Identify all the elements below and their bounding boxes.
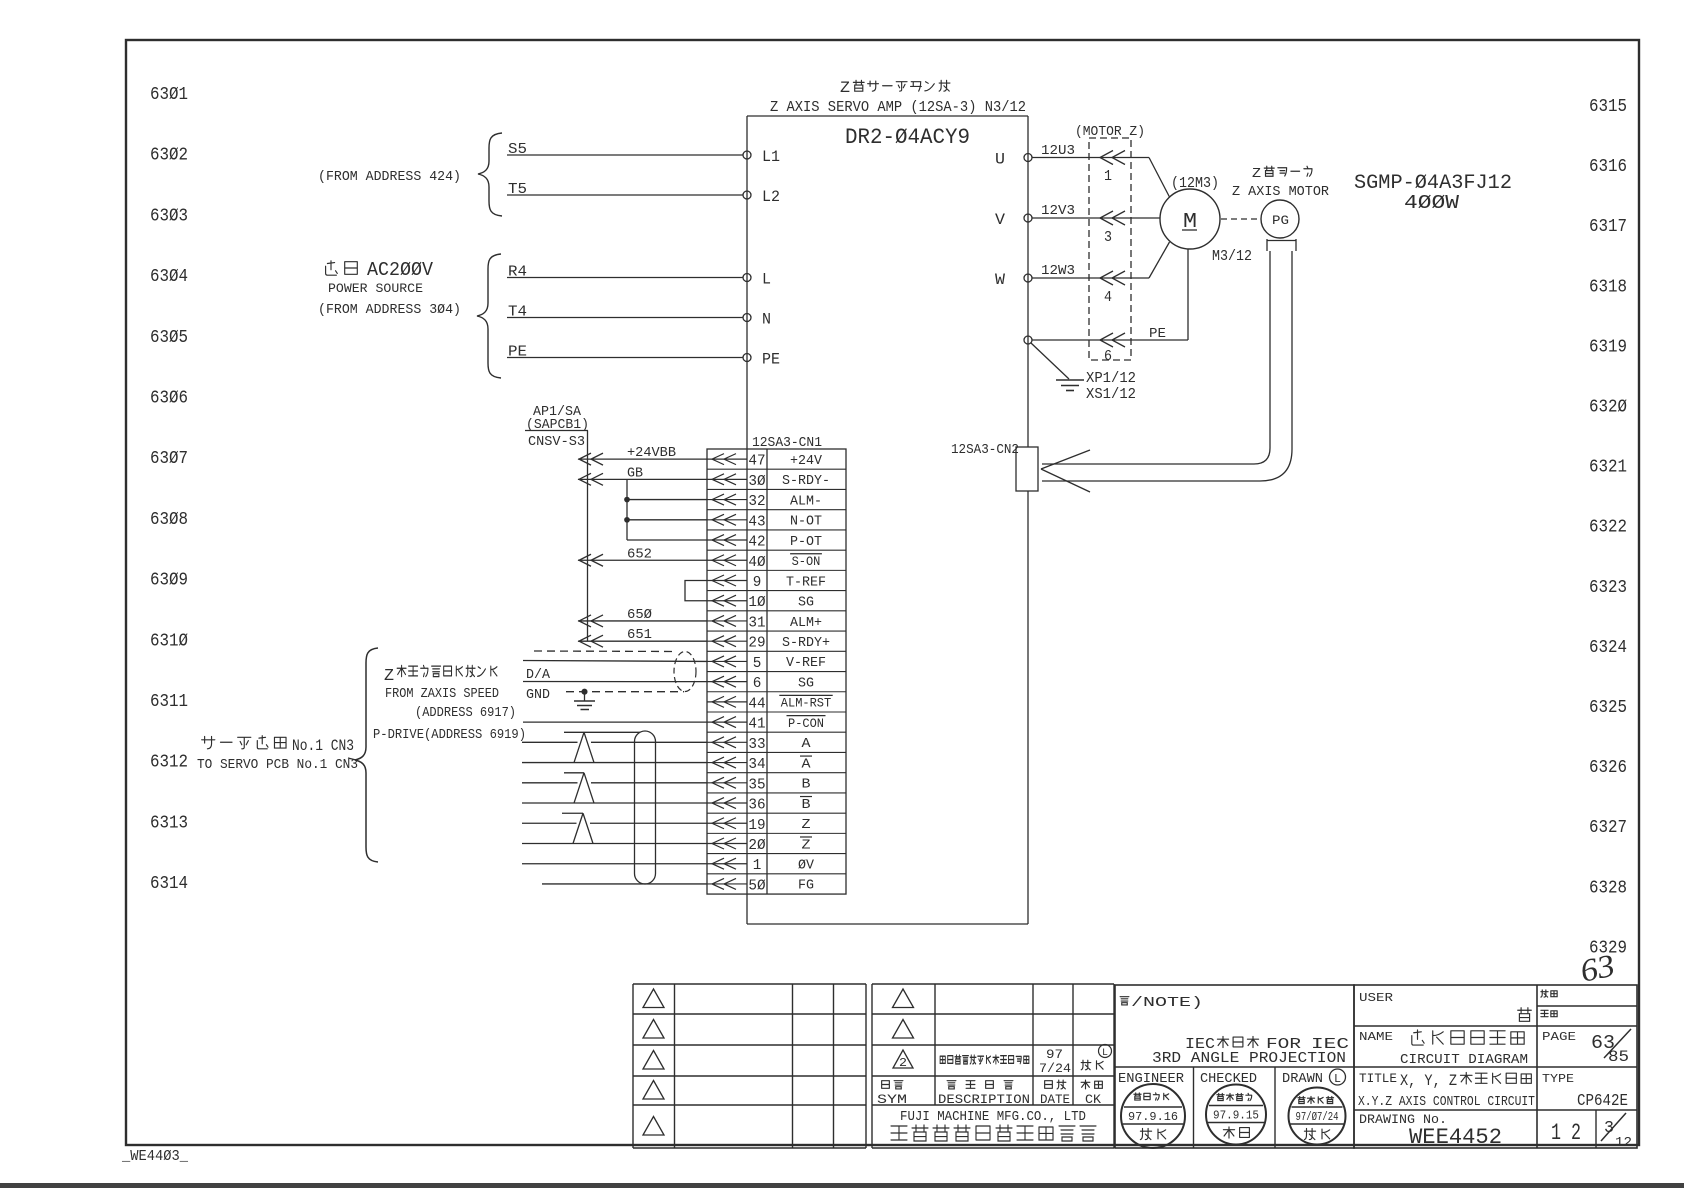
svg-text:X.Y.Z AXIS CONTROL CIRCUIT: X.Y.Z AXIS CONTROL CIRCUIT	[1358, 1095, 1535, 1110]
svg-text:6327: 6327	[1589, 818, 1627, 838]
wire +24VBB pin47	[578, 458, 707, 460]
svg-text:29: 29	[748, 635, 765, 652]
CN1 pin 47 +24V row	[707, 458, 747, 460]
svg-text:CP642E: CP642E	[1577, 1092, 1628, 1111]
svg-text:U: U	[995, 151, 1005, 169]
CN1 pin 41 P-CON row	[707, 721, 747, 723]
svg-text:6319: 6319	[1589, 337, 1627, 357]
svg-text:12W3: 12W3	[1041, 263, 1075, 279]
svg-text:(FROM ADDRESS 3Ø4): (FROM ADDRESS 3Ø4)	[318, 302, 461, 318]
svg-text:PAGE: PAGE	[1542, 1030, 1576, 1044]
svg-text:CNSV-S3: CNSV-S3	[528, 434, 585, 450]
twisted pair symbol pins 19/2Ø	[562, 812, 583, 814]
svg-text:DR2-Ø4ACY9: DR2-Ø4ACY9	[845, 125, 970, 150]
svg-text:WEE4452: WEE4452	[1409, 1125, 1502, 1150]
wire T4	[507, 317, 743, 319]
svg-text:6: 6	[1104, 348, 1112, 365]
svg-text:A: A	[802, 736, 812, 752]
CN1 pin 31 ALM+ row	[707, 620, 747, 622]
stamp circle checked yamamoto	[1206, 1085, 1266, 1145]
svg-text:7/24: 7/24	[1039, 1061, 1071, 1076]
svg-text:632Ø: 632Ø	[1589, 398, 1627, 418]
connector 12SA3-CN2	[1016, 447, 1038, 491]
svg-text:12U3: 12U3	[1041, 143, 1075, 159]
svg-text:2Ø: 2Ø	[748, 837, 765, 854]
svg-text:631Ø: 631Ø	[150, 631, 188, 651]
svg-text:L1: L1	[762, 148, 780, 166]
svg-text:L: L	[762, 271, 771, 289]
CN1 table frame	[707, 449, 846, 894]
CN1 pin 5 V-REF row	[707, 660, 747, 662]
svg-text:+24V: +24V	[790, 453, 823, 469]
svg-text:63Ø2: 63Ø2	[150, 146, 188, 166]
bunban box label	[1541, 990, 1548, 997]
wire S5	[507, 154, 743, 156]
svg-text:4ØØW: 4ØØW	[1404, 192, 1460, 214]
CN1 pin 6 SG row	[707, 681, 747, 683]
CN1 pin 29 S-RDY+ row	[707, 640, 747, 642]
note label	[1120, 997, 1129, 1005]
svg-text:X, Y, Z: X, Y, Z	[1400, 1072, 1457, 1090]
CN1 pin 2Ø Z row	[707, 842, 747, 844]
GB branch bus vertical	[626, 479, 628, 540]
dashed link M to PG	[1221, 218, 1260, 220]
svg-text:12SA3-CN2: 12SA3-CN2	[951, 442, 1019, 458]
terminal L2	[743, 191, 751, 199]
svg-text:PE: PE	[762, 351, 780, 369]
stamp circle engineer adachi	[1121, 1084, 1185, 1148]
wire R4	[507, 277, 743, 279]
svg-text:6318: 6318	[1589, 277, 1627, 297]
junction dot pin32	[625, 497, 629, 501]
jumper T-REF to SG pins 9-10	[685, 580, 707, 600]
svg-text:47: 47	[748, 453, 765, 470]
label servo pcb No.1 CN3 kanji	[202, 736, 215, 748]
svg-text:L2: L2	[762, 188, 780, 206]
svg-text:P-CON: P-CON	[788, 717, 824, 731]
svg-text:6315: 6315	[1589, 97, 1627, 117]
svg-text:63Ø5: 63Ø5	[150, 328, 188, 348]
svg-text:41: 41	[748, 716, 765, 733]
svg-text:Z AXIS MOTOR: Z AXIS MOTOR	[1232, 184, 1330, 200]
CN1 pin 33 A row	[707, 741, 747, 743]
svg-text:S-RDY-: S-RDY-	[782, 473, 830, 489]
svg-text:63Ø3: 63Ø3	[150, 206, 188, 226]
dono kanji	[1518, 1008, 1532, 1022]
svg-text:31: 31	[748, 614, 765, 631]
svg-text:V-REF: V-REF	[786, 655, 826, 671]
revision triangle L2	[643, 1020, 664, 1039]
svg-text:36: 36	[748, 797, 765, 814]
svg-text:1 2: 1 2	[1551, 1120, 1581, 1146]
wire P-DRIVE pin41	[523, 721, 707, 723]
circled L small	[1099, 1045, 1112, 1058]
title block NOTE box	[1115, 985, 1354, 1148]
revision triangle R2	[893, 1020, 914, 1039]
wire GB pin30	[578, 478, 707, 480]
CN1 pin 4Ø S-ON row	[707, 559, 747, 561]
svg-text:1Ø: 1Ø	[748, 594, 765, 611]
revision triangle L3	[643, 1051, 664, 1070]
svg-text:(FROM ADDRESS 424): (FROM ADDRESS 424)	[318, 169, 461, 185]
svg-text:4: 4	[1104, 289, 1112, 306]
svg-text:AC2ØØV: AC2ØØV	[367, 259, 434, 281]
scanner edge line bottom	[0, 1183, 1684, 1188]
svg-text:1: 1	[753, 857, 762, 874]
terminal PE	[743, 354, 751, 362]
svg-text:97/Ø7/24: 97/Ø7/24	[1296, 1110, 1339, 1124]
svg-text:6328: 6328	[1589, 878, 1627, 898]
header CK cell	[1081, 1080, 1090, 1089]
svg-text:DRAWN: DRAWN	[1282, 1071, 1323, 1087]
svg-text:63Ø6: 63Ø6	[150, 389, 188, 409]
svg-text:No.1 CN3: No.1 CN3	[292, 737, 354, 755]
CN1 pin 19 Z row	[707, 822, 747, 824]
svg-text:ALM-: ALM-	[790, 493, 822, 509]
terminal L	[743, 274, 751, 282]
svg-text:6317: 6317	[1589, 217, 1627, 237]
svg-text:6326: 6326	[1589, 758, 1627, 778]
svg-text:S5: S5	[508, 141, 527, 158]
svg-text:1: 1	[1104, 168, 1112, 185]
svg-text:TITLE: TITLE	[1359, 1071, 1397, 1086]
stamp circle drawn esaka	[1289, 1088, 1346, 1145]
svg-text:CK: CK	[1085, 1092, 1101, 1107]
svg-text:SYM: SYM	[877, 1092, 907, 1107]
svg-text:65Ø: 65Ø	[627, 608, 652, 623]
svg-text:63Ø1: 63Ø1	[150, 85, 188, 105]
svg-text:XP1/12: XP1/12	[1086, 370, 1136, 387]
wire U 12U3 pin1	[1032, 157, 1149, 159]
wire V 12V3 pin3	[1032, 217, 1160, 219]
CN1 pin 34 A row	[707, 762, 747, 764]
wire pin 33	[522, 741, 578, 743]
wire 650 pin31	[578, 620, 707, 622]
label power source AC200V	[326, 261, 338, 275]
svg-text:43: 43	[748, 513, 765, 530]
svg-text:A: A	[802, 756, 812, 772]
revision triangle L5	[643, 1117, 664, 1136]
svg-text:6312: 6312	[150, 753, 188, 773]
dashed connector box MOTOR Z	[1089, 138, 1131, 360]
servo amp 12SA-3 box outline	[747, 115, 1028, 117]
twisted pair symbol pins 33/34	[564, 731, 584, 733]
svg-text:63Ø8: 63Ø8	[150, 510, 188, 530]
svg-text:97.9.15: 97.9.15	[1213, 1109, 1259, 1123]
revision 2 CK esaka	[1081, 1060, 1091, 1070]
CN1 pin 42 P-OT row	[707, 539, 747, 541]
CN1 pin 1 ØV row	[707, 863, 747, 865]
shield ellipse pair 5/6	[674, 652, 696, 692]
terminal U	[1024, 154, 1032, 162]
svg-text:W: W	[995, 271, 1005, 289]
terminal L1	[743, 151, 751, 159]
svg-text:N: N	[762, 311, 771, 329]
svg-text:(12M3): (12M3)	[1171, 175, 1219, 192]
wire pin 36	[522, 802, 707, 804]
svg-text:651: 651	[627, 628, 652, 643]
shield dashed top V-REF	[534, 650, 676, 653]
wire pin 34	[522, 762, 707, 764]
revision triangle L1	[643, 989, 664, 1008]
svg-text:ALM-RST: ALM-RST	[781, 697, 832, 711]
svg-text:Z: Z	[1252, 166, 1261, 182]
svg-text:44: 44	[748, 695, 765, 712]
svg-text:FROM ZAXIS SPEED: FROM ZAXIS SPEED	[385, 686, 499, 702]
twisted pair A extension to shield	[584, 731, 640, 733]
svg-text:6321: 6321	[1589, 458, 1627, 478]
svg-text:6: 6	[753, 675, 762, 692]
wire 652 pin40	[578, 559, 707, 561]
header SYM cell	[882, 1081, 890, 1089]
svg-text:4Ø: 4Ø	[748, 554, 765, 571]
svg-text:P-DRIVE(ADDRESS 6919): P-DRIVE(ADDRESS 6919)	[373, 727, 526, 743]
svg-text:6322: 6322	[1589, 518, 1627, 538]
CN1 pin 36 B row	[707, 802, 747, 804]
brace servo pcb no1 cn3	[355, 648, 378, 862]
svg-text:ØV: ØV	[798, 858, 815, 874]
svg-text:CIRCUIT DIAGRAM: CIRCUIT DIAGRAM	[1400, 1052, 1528, 1068]
svg-text:34: 34	[748, 756, 765, 773]
PG cable down to CN2	[1042, 251, 1270, 464]
CN1 pin 35 B row	[707, 782, 747, 784]
motor M circle 12M3	[1160, 189, 1220, 249]
USER box	[1354, 985, 1637, 1148]
ground symbol GND	[584, 692, 586, 701]
circled L drawn	[1330, 1069, 1346, 1085]
svg-text:6323: 6323	[1589, 578, 1627, 598]
svg-text:Z: Z	[802, 837, 811, 853]
wire PE pin6	[1032, 339, 1188, 341]
CN1 pin 9 T-REF row	[707, 579, 747, 581]
svg-text:32: 32	[748, 493, 765, 510]
svg-text:97.9.16: 97.9.16	[1128, 1110, 1178, 1124]
CN1 pin 3Ø S-RDY- row	[707, 478, 747, 480]
CN1 pin 1Ø SG row	[707, 600, 747, 602]
terminal PE right	[1024, 336, 1032, 344]
svg-text:GND: GND	[526, 687, 550, 703]
svg-text:N-OT: N-OT	[790, 514, 822, 530]
revision triangle L4	[643, 1081, 664, 1100]
svg-text:PE: PE	[1149, 326, 1166, 342]
svg-text:M3/12: M3/12	[1212, 248, 1252, 265]
svg-text:L: L	[1334, 1072, 1341, 1086]
svg-text:SG: SG	[798, 675, 814, 691]
svg-text:NAME: NAME	[1359, 1030, 1393, 1044]
shield dashed GND	[566, 691, 684, 693]
wire pin 2Ø	[522, 842, 707, 844]
CN1 pin 32 ALM- row	[707, 499, 747, 501]
svg-text:T-REF: T-REF	[786, 574, 826, 590]
svg-text:12: 12	[1615, 1135, 1632, 1151]
svg-text:ALM+: ALM+	[790, 615, 822, 631]
svg-text:6313: 6313	[150, 813, 188, 833]
brace from address 424	[478, 133, 502, 216]
wire pin32	[627, 499, 707, 501]
svg-text:6311: 6311	[150, 692, 188, 712]
svg-text:Z AXIS SERVO AMP (12SA-3) N3/: Z AXIS SERVO AMP (12SA-3) N3/12	[770, 99, 1026, 116]
svg-text:PE: PE	[508, 344, 527, 361]
svg-text:D/A: D/A	[526, 667, 551, 683]
svg-text:42: 42	[748, 534, 765, 551]
svg-text:T5: T5	[508, 181, 527, 198]
brace from address 304	[477, 254, 501, 378]
wire 651 pin29	[578, 640, 707, 642]
svg-text:63Ø4: 63Ø4	[150, 267, 188, 287]
wire pin43	[627, 519, 707, 521]
header DATE cell	[1045, 1081, 1053, 1089]
cable arrow into CN2	[1041, 450, 1090, 469]
svg-text:POWER SOURCE: POWER SOURCE	[328, 281, 423, 296]
svg-text:TO SERVO PCB No.1 CN3: TO SERVO PCB No.1 CN3	[197, 758, 358, 773]
svg-text:FG: FG	[798, 878, 814, 894]
wire pin 35	[522, 782, 578, 784]
terminal V	[1024, 214, 1032, 222]
svg-text:63Ø9: 63Ø9	[150, 571, 188, 591]
svg-text:FUJI MACHINE MFG.CO., LTD: FUJI MACHINE MFG.CO., LTD	[900, 1110, 1086, 1125]
header DESCRIPTION cell	[947, 1081, 956, 1089]
svg-text:GB: GB	[627, 466, 643, 481]
CN1 pin 5Ø FG row	[707, 883, 747, 885]
svg-text:Z: Z	[802, 817, 811, 833]
svg-text:/NOTE): /NOTE)	[1131, 995, 1203, 1011]
svg-text:B: B	[802, 797, 811, 813]
wire T5	[507, 194, 743, 196]
twisted pair symbol pins 35/36	[564, 772, 584, 774]
svg-text:33: 33	[748, 736, 765, 753]
svg-text:652: 652	[627, 547, 652, 562]
CN1 pin 44 ALM-RST row	[707, 701, 747, 703]
junction dot GND	[582, 689, 587, 694]
svg-text:9: 9	[753, 574, 762, 591]
svg-text:USER: USER	[1359, 991, 1393, 1005]
revision table right block	[872, 983, 1114, 985]
bus wire CNSV-S3 vertical	[587, 431, 589, 642]
revision table left block	[633, 983, 866, 985]
svg-text:2: 2	[899, 1056, 907, 1070]
junction dot pin43	[625, 518, 629, 522]
svg-text:12V3: 12V3	[1041, 203, 1075, 219]
svg-text:L: L	[1102, 1048, 1108, 1059]
svg-text:S-ON: S-ON	[792, 555, 821, 569]
svg-text:6316: 6316	[1589, 157, 1627, 177]
svg-text:6325: 6325	[1589, 698, 1627, 718]
svg-text:6324: 6324	[1589, 638, 1627, 658]
wire pin1 0V	[522, 863, 707, 865]
svg-text:5: 5	[753, 655, 762, 672]
terminal W	[1024, 274, 1032, 282]
PG pedestal	[1267, 239, 1296, 251]
svg-text:35: 35	[748, 776, 765, 793]
wire pin 19	[522, 822, 577, 824]
CN1 pin 43 N-OT row	[707, 519, 747, 521]
svg-text:Z: Z	[840, 79, 850, 97]
svg-text:3: 3	[1104, 229, 1112, 246]
svg-text:V: V	[995, 211, 1005, 229]
svg-text:85: 85	[1608, 1048, 1629, 1066]
wire PE	[507, 357, 743, 359]
svg-text:(ADDRESS 6917): (ADDRESS 6917)	[415, 705, 516, 721]
svg-text:XS1/12: XS1/12	[1086, 386, 1136, 403]
svg-text:B: B	[802, 777, 811, 793]
wire D/A to V-REF pin5	[523, 660, 707, 663]
svg-text:5Ø: 5Ø	[748, 877, 765, 894]
svg-text:DATE: DATE	[1040, 1092, 1070, 1107]
revision triangle R1	[893, 989, 914, 1008]
svg-text:63Ø7: 63Ø7	[150, 449, 188, 469]
svg-text:Z: Z	[384, 667, 394, 686]
svg-text:TYPE: TYPE	[1542, 1072, 1574, 1086]
svg-text:DESCRIPTION: DESCRIPTION	[938, 1092, 1030, 1107]
svg-text:3RD ANGLE PROJECTION: 3RD ANGLE PROJECTION	[1152, 1050, 1346, 1067]
wire pin50 FG	[542, 883, 707, 885]
svg-text:97: 97	[1046, 1047, 1063, 1062]
svg-text:P-OT: P-OT	[790, 534, 822, 550]
svg-text:S-RDY+: S-RDY+	[782, 635, 830, 651]
ground at amp PE terminal	[1031, 343, 1069, 379]
terminal N	[743, 314, 751, 322]
svg-text:_WE44Ø3_: _WE44Ø3_	[121, 1148, 189, 1165]
cable shield oval	[635, 731, 656, 884]
svg-text:19: 19	[748, 817, 765, 834]
svg-text:T4: T4	[508, 304, 527, 321]
wire W 12W3 pin4	[1032, 277, 1149, 279]
svg-text:(MOTOR Z): (MOTOR Z)	[1075, 124, 1145, 140]
wire GND to SG pin6	[523, 681, 707, 683]
svg-text:+24VBB: +24VBB	[627, 446, 676, 461]
revision 2 description kanji	[940, 1056, 945, 1063]
company name kanji	[891, 1126, 907, 1140]
wire pin42	[627, 539, 707, 541]
svg-text:R4: R4	[508, 264, 527, 281]
svg-text:6314: 6314	[150, 874, 188, 894]
svg-text:PG: PG	[1272, 213, 1289, 228]
svg-text:3Ø: 3Ø	[748, 473, 765, 490]
seiban box label	[1541, 1010, 1548, 1016]
revision entry 2 triangle	[893, 1050, 913, 1068]
encoder PG circle	[1261, 200, 1299, 238]
svg-text:SG: SG	[798, 595, 814, 611]
